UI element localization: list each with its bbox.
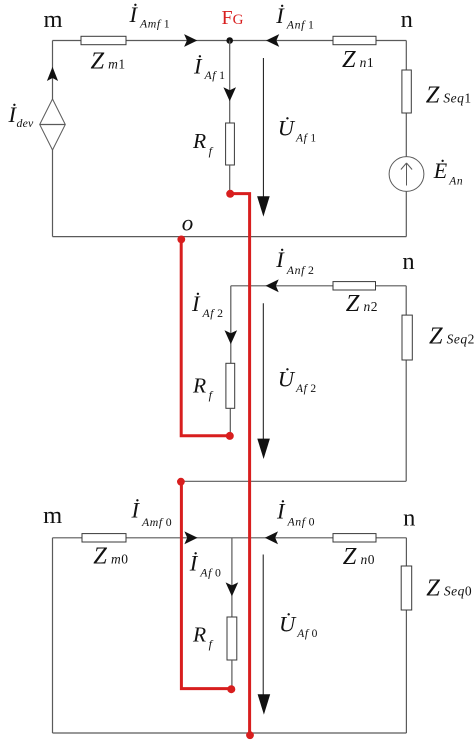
impedance ZSeq1 [402, 70, 472, 113]
node FG (fault point) [222, 7, 244, 44]
svg-text:m: m [43, 6, 62, 33]
current arrow I_Amf0 [131, 498, 198, 545]
resistor Rf (positive) [192, 123, 234, 165]
svg-text:m: m [43, 502, 62, 529]
current arrow I_Anf1 [266, 3, 314, 47]
impedance Zm1 [81, 36, 126, 74]
wire: top bus of zero network [53, 537, 407, 539]
wire: Rf1 bottom lead [229, 165, 231, 193]
resistor Rf (zero) [192, 617, 237, 660]
junction dot: Rf0 bottom terminal [227, 685, 235, 693]
voltage arrow U_Af1 [257, 58, 317, 217]
current arrow I_Anf0 [265, 498, 315, 544]
svg-text:n: n [403, 505, 415, 532]
current arrow I_Anf2 [266, 247, 315, 292]
impedance ZSeq2 [402, 315, 474, 360]
wire: bottom bus of zero network [53, 732, 407, 734]
arrow on I_dev branch [47, 67, 58, 81]
junction dot: on zero-sequence bottom bus [246, 731, 254, 739]
source E_An (emf) [389, 157, 463, 192]
junction dot: Rf1 bottom terminal [226, 190, 234, 198]
svg-text:o: o [182, 211, 194, 236]
wire: right branch of zero network (n side) [405, 538, 407, 733]
impedance Zn1 [333, 36, 376, 73]
junction dot: left end of negative bottom bus [177, 478, 185, 486]
current arrow I_Af1 [193, 53, 236, 101]
impedance Zn0 [333, 534, 376, 570]
current arrow I_Af2 [191, 291, 237, 344]
impedance Zn2 [333, 282, 378, 317]
red wire: Rf1 bottom, right and down to zero-sequence bottom bus [230, 194, 250, 735]
impedance ZSeq0 [401, 566, 472, 610]
current arrow I_Af0 [189, 551, 238, 597]
wire: right branch of negative network (n side) [405, 286, 407, 482]
wire: Rf0 bottom lead [231, 660, 233, 689]
resistor Rf (negative) [192, 363, 235, 408]
wire: top bus of negative network [231, 285, 406, 287]
current arrow I_Amf1 [129, 2, 198, 47]
node o (on positive bottom bus) [177, 211, 193, 244]
wire: Rf2 bottom lead [229, 408, 231, 435]
red wire: node o down and right to Rf2 bottom [181, 239, 230, 436]
voltage arrow U_Af2 [257, 303, 316, 459]
wire: right branch of positive network (n side) [405, 41, 407, 237]
current source I_dev [8, 99, 66, 150]
voltage arrow U_Af0 [258, 555, 318, 715]
wire: bottom bus of negative network [181, 480, 407, 482]
svg-text:n: n [401, 6, 413, 33]
impedance Zm0 [82, 534, 128, 570]
wire: bottom bus of positive network [53, 236, 407, 238]
junction dot: Rf2 bottom terminal [226, 432, 234, 440]
fault branch wire (positive): FG down to Rf [229, 41, 231, 124]
fault branch wire (negative): top bus corner down to Rf [230, 286, 232, 364]
wire: left branch of zero network (m side) [52, 538, 54, 733]
red wire: negative bottom bus down and right to Rf0 bottom [181, 482, 231, 689]
wire: top bus m-FG-n (positive-sequence) [53, 40, 407, 42]
fault branch wire (zero): top bus down to Rf [231, 538, 233, 617]
wire: left branch of positive network (m side) [52, 41, 54, 237]
svg-text:n: n [402, 248, 414, 275]
